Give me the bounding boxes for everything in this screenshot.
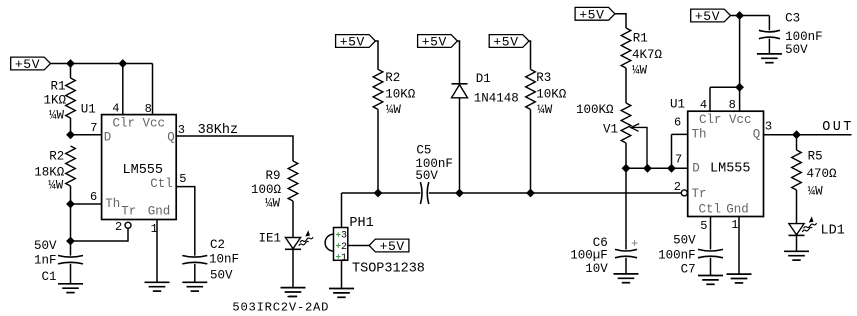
- svg-text:¼W: ¼W: [808, 184, 824, 198]
- svg-text:6: 6: [674, 115, 681, 129]
- svg-text:6: 6: [90, 190, 97, 204]
- svg-text:Gnd: Gnd: [726, 203, 749, 217]
- svg-text:LM555: LM555: [710, 162, 751, 177]
- svg-text:7: 7: [90, 121, 97, 135]
- svg-text:LM555: LM555: [123, 163, 164, 178]
- svg-text:7: 7: [675, 152, 682, 166]
- svg-text:503IRC2V-2AD: 503IRC2V-2AD: [232, 300, 329, 314]
- svg-text:4K7Ω: 4K7Ω: [632, 48, 663, 62]
- svg-text:+5V: +5V: [579, 8, 604, 23]
- svg-text:1: 1: [151, 222, 158, 236]
- svg-text:U1: U1: [670, 98, 685, 112]
- svg-text:¼W: ¼W: [386, 103, 402, 117]
- svg-text:50V: 50V: [673, 234, 696, 248]
- svg-text:50V: 50V: [785, 43, 808, 57]
- svg-text:18KΩ: 18KΩ: [34, 166, 65, 180]
- svg-text:C7: C7: [681, 263, 696, 277]
- svg-text:¼W: ¼W: [48, 179, 64, 193]
- svg-text:R9: R9: [265, 169, 280, 183]
- svg-text:OUT: OUT: [822, 120, 854, 135]
- svg-text:10KΩ: 10KΩ: [385, 88, 416, 102]
- svg-text:3: 3: [765, 119, 772, 133]
- svg-text:Ctl: Ctl: [699, 203, 722, 217]
- svg-text:+5V: +5V: [15, 57, 40, 72]
- svg-text:Clr Vcc: Clr Vcc: [699, 113, 752, 127]
- svg-text:100Ω: 100Ω: [251, 183, 282, 197]
- svg-text:C5: C5: [416, 143, 431, 157]
- svg-text:C1: C1: [41, 270, 56, 284]
- svg-text:Q: Q: [167, 130, 175, 144]
- svg-text:2: 2: [674, 180, 681, 194]
- svg-text:Gnd: Gnd: [148, 204, 171, 218]
- svg-text:4: 4: [700, 98, 707, 112]
- svg-text:¼W: ¼W: [265, 197, 281, 211]
- svg-text:1: 1: [731, 218, 738, 232]
- svg-text:3: 3: [341, 231, 347, 242]
- svg-text:+5V: +5V: [422, 35, 447, 50]
- svg-text:R2: R2: [49, 149, 64, 163]
- svg-text:+5V: +5V: [695, 9, 720, 24]
- svg-text:C3: C3: [785, 12, 800, 26]
- svg-text:38Khz: 38Khz: [198, 123, 239, 138]
- svg-text:50V: 50V: [210, 269, 233, 283]
- svg-text:C2: C2: [210, 238, 225, 252]
- svg-text:D1: D1: [476, 72, 491, 86]
- svg-text:1KΩ: 1KΩ: [43, 94, 66, 108]
- svg-text:100KΩ: 100KΩ: [576, 103, 614, 117]
- svg-text:¼W: ¼W: [632, 63, 648, 77]
- svg-text:R1: R1: [633, 31, 648, 45]
- svg-text:R5: R5: [808, 149, 823, 163]
- svg-text:+5V: +5V: [340, 35, 365, 50]
- svg-text:10KΩ: 10KΩ: [536, 88, 567, 102]
- svg-text:Tr: Tr: [121, 204, 136, 218]
- svg-text:¼W: ¼W: [537, 103, 553, 117]
- svg-text:Ctl: Ctl: [150, 177, 173, 191]
- svg-text:R1: R1: [50, 79, 65, 93]
- svg-text:Q: Q: [753, 127, 761, 141]
- svg-text:D: D: [104, 130, 112, 144]
- svg-text:R3: R3: [536, 71, 551, 85]
- svg-text:10nF: 10nF: [209, 253, 239, 267]
- svg-text:Tr: Tr: [692, 187, 707, 201]
- svg-text:U1: U1: [81, 102, 96, 116]
- svg-text:PH1: PH1: [349, 216, 373, 231]
- svg-text:470Ω: 470Ω: [807, 167, 838, 181]
- svg-text:Th: Th: [692, 127, 707, 141]
- svg-text:5: 5: [700, 219, 707, 233]
- svg-text:R2: R2: [385, 71, 400, 85]
- svg-text:+: +: [631, 237, 638, 251]
- svg-text:2: 2: [341, 242, 347, 253]
- svg-text:V1: V1: [603, 123, 618, 137]
- svg-text:+5V: +5V: [380, 239, 405, 254]
- svg-text:TSOP31238: TSOP31238: [352, 261, 425, 276]
- svg-text:100nF: 100nF: [658, 249, 696, 263]
- svg-text:8: 8: [729, 98, 736, 112]
- svg-text:100µF: 100µF: [570, 249, 608, 263]
- svg-text:3: 3: [178, 123, 185, 137]
- svg-text:2: 2: [115, 220, 122, 234]
- svg-text:D: D: [692, 162, 700, 176]
- svg-text:Th: Th: [105, 197, 120, 211]
- svg-text:¼W: ¼W: [49, 109, 65, 123]
- svg-text:10V: 10V: [585, 262, 608, 276]
- svg-text:1: 1: [341, 253, 347, 264]
- svg-text:50V: 50V: [415, 169, 438, 183]
- svg-text:Clr Vcc: Clr Vcc: [113, 116, 166, 130]
- svg-text:LD1: LD1: [821, 224, 845, 239]
- svg-text:+5V: +5V: [493, 35, 518, 50]
- svg-text:50V: 50V: [34, 239, 57, 253]
- svg-text:5: 5: [179, 172, 186, 186]
- svg-text:4: 4: [112, 102, 119, 116]
- svg-text:8: 8: [145, 102, 152, 116]
- svg-text:1N4148: 1N4148: [474, 92, 519, 106]
- svg-text:IE1: IE1: [258, 231, 281, 245]
- svg-text:1nF: 1nF: [34, 253, 57, 267]
